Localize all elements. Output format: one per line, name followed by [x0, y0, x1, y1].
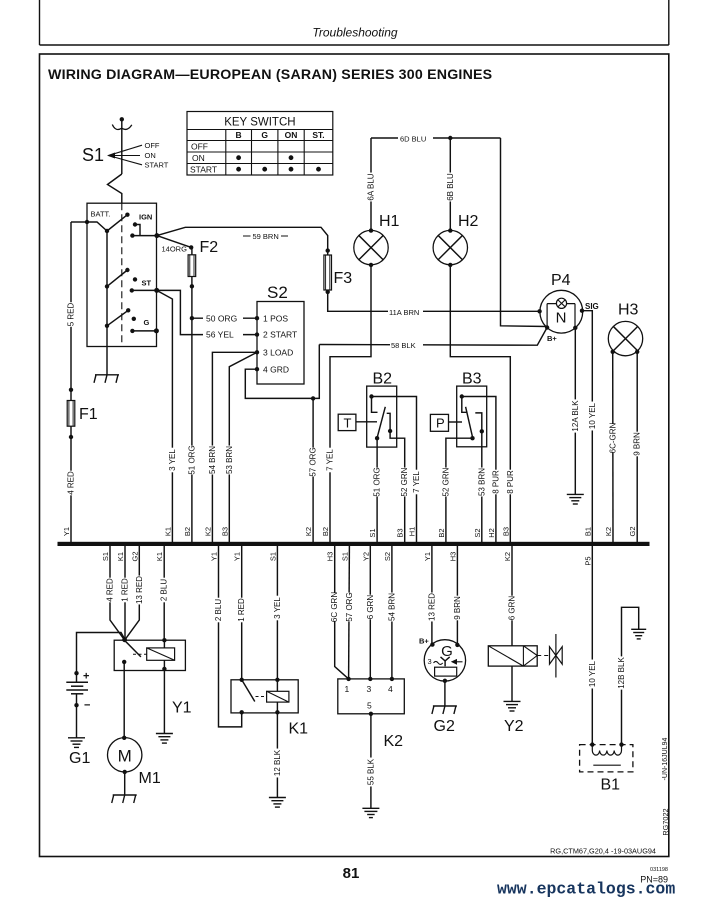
svg-text:1 RED: 1 RED: [237, 598, 246, 622]
svg-text:S1: S1: [101, 552, 110, 561]
wire 13 RED below bus: [125, 546, 139, 640]
svg-text:M: M: [118, 747, 132, 766]
contact arm G: [105, 324, 109, 328]
S2 pin 4 GRD: [255, 367, 259, 371]
svg-text:H3: H3: [448, 552, 457, 562]
svg-text:B+: B+: [547, 334, 557, 343]
svg-text:H3: H3: [618, 302, 639, 319]
svg-text:52 GRN: 52 GRN: [400, 467, 409, 496]
svg-text:ON: ON: [145, 151, 156, 160]
svg-text:53 BRN: 53 BRN: [477, 468, 486, 496]
svg-text:RG7022: RG7022: [661, 808, 670, 835]
svg-text:BATT.: BATT.: [91, 210, 111, 219]
P4 bottom terminal: [573, 326, 577, 330]
relay Y1 arm: [124, 640, 140, 657]
svg-text:11A BRN: 11A BRN: [389, 308, 419, 317]
svg-text:K1: K1: [163, 527, 172, 536]
svg-text:8 PUR: 8 PUR: [491, 470, 500, 494]
wire 7 YEL from B2: [372, 397, 417, 543]
svg-text:WIRING DIAGRAM—EUROPEAN (SARAN: WIRING DIAGRAM—EUROPEAN (SARAN) SERIES 3…: [48, 67, 492, 83]
wire 51 ORG from F2 to bus: [191, 286, 193, 542]
svg-text:54 BRN: 54 BRN: [387, 593, 396, 621]
G2 bottom terminal: [443, 679, 447, 683]
wire 50 ORG: [192, 317, 257, 319]
contact arm IGN: [105, 229, 109, 233]
svg-text:G2: G2: [434, 718, 455, 735]
S2 pin 3 LOAD: [255, 350, 259, 354]
wire 6B BLU: [449, 138, 451, 231]
svg-text:031198: 031198: [650, 867, 668, 873]
svg-text:2 BLU: 2 BLU: [214, 599, 223, 621]
svg-text:H2: H2: [487, 528, 496, 538]
sender B3 box: [457, 386, 487, 447]
wire 6 GRN to K2: [369, 546, 371, 679]
B2 top terminal: [369, 394, 373, 398]
svg-text:6 GRN: 6 GRN: [366, 595, 375, 620]
P4 B+ terminal: [545, 325, 549, 329]
svg-text:START: START: [145, 161, 169, 170]
wire 3 YEL to K1: [276, 546, 278, 680]
S1 case ground wire: [106, 347, 108, 375]
svg-text:5 RED: 5 RED: [67, 302, 76, 326]
svg-text:57 ORG: 57 ORG: [309, 447, 318, 476]
svg-text:ON: ON: [285, 130, 298, 140]
wire 11A BRN: [328, 292, 540, 311]
wire Y2 to valve: [537, 655, 549, 657]
wire relay to motor: [123, 671, 125, 738]
ground K1: [269, 797, 286, 799]
svg-text:N: N: [556, 310, 567, 327]
node F2 bottom: [190, 284, 194, 288]
wire relay to ground: [163, 671, 165, 734]
relay K1 box: [231, 680, 298, 713]
svg-text:13 RED: 13 RED: [135, 576, 144, 604]
S1 mechanical dashed link: [121, 203, 123, 346]
ground chassis G2: [433, 705, 457, 707]
wire 6 GRN to Y2: [511, 546, 513, 646]
wire 53 BRN from B3: [481, 431, 483, 542]
svg-text:Troubleshooting: Troubleshooting: [312, 26, 397, 40]
svg-text:B: B: [236, 130, 242, 140]
ST terminal: [133, 277, 137, 281]
valve symbol: [550, 647, 563, 664]
wire 56 YEL: [157, 290, 257, 334]
svg-text:81: 81: [343, 865, 360, 882]
svg-text:B2: B2: [183, 527, 192, 536]
motor M1: [108, 738, 142, 772]
wire Y2 to ground: [511, 666, 513, 701]
svg-text:12 BLK: 12 BLK: [273, 749, 282, 776]
wire 53 BRN: [229, 352, 257, 542]
solenoid Y2 box: [488, 646, 537, 666]
component B1 dashed box: [580, 745, 633, 772]
svg-text:S1: S1: [82, 145, 104, 165]
wire 8 PUR from B3: [462, 397, 496, 543]
S1 switch box: [87, 203, 157, 346]
svg-text:55 BLK: 55 BLK: [366, 758, 375, 785]
S2 pin 1 POS: [255, 316, 259, 320]
svg-text:K2: K2: [203, 527, 212, 536]
svg-text:7 YEL: 7 YEL: [412, 471, 421, 493]
svg-text:Y1: Y1: [423, 552, 432, 561]
key switch table: [187, 112, 333, 176]
wire 4 RED below bus: [110, 546, 124, 640]
wire 6C-GRN: [612, 352, 614, 542]
wire to P4 B+: [501, 138, 548, 327]
wire 13 RED to G2: [431, 546, 433, 645]
node F3 bottom: [326, 290, 330, 294]
svg-text:6B BLU: 6B BLU: [446, 173, 455, 201]
wire 6A BLU: [370, 138, 372, 231]
svg-text:ON: ON: [192, 153, 205, 163]
B3 top terminal: [460, 394, 464, 398]
node F1 bottom: [69, 435, 73, 439]
svg-text:ST: ST: [142, 279, 152, 288]
svg-text:K2: K2: [384, 733, 404, 750]
svg-text:52 GRN: 52 GRN: [441, 467, 450, 496]
wire 58 BLK: [319, 328, 547, 346]
svg-text:B3: B3: [501, 527, 510, 536]
key switch S1 stem: [120, 117, 124, 121]
wire 3 YEL: [157, 290, 173, 542]
ground K2: [362, 807, 379, 809]
wire GRD elbow from S2 pin 4: [245, 345, 319, 399]
alternator G2: [424, 640, 465, 681]
svg-text:4 RED: 4 RED: [67, 471, 76, 495]
svg-text:K2: K2: [503, 552, 512, 561]
wire 6C GRN to K2: [335, 546, 349, 679]
svg-text:KEY SWITCH: KEY SWITCH: [224, 117, 295, 129]
svg-text:1 RED: 1 RED: [121, 578, 130, 602]
wire 1 RED below bus: [124, 546, 126, 640]
svg-text:10 YEL: 10 YEL: [588, 660, 597, 687]
svg-text:B3: B3: [220, 527, 229, 536]
ground G1: [68, 737, 85, 739]
sender B2 box: [367, 386, 397, 447]
K2 pin 1: [346, 677, 350, 681]
svg-text:G2: G2: [130, 551, 139, 561]
wire 51 ORG from B2: [376, 438, 378, 542]
svg-text:56 YEL: 56 YEL: [206, 330, 234, 340]
B2 right terminal: [388, 429, 392, 433]
svg-text:K1: K1: [155, 552, 164, 561]
node F1 top: [69, 388, 73, 392]
svg-text:−: −: [84, 700, 90, 712]
wire 9 BRN: [636, 352, 638, 542]
svg-text:S1: S1: [340, 552, 349, 561]
svg-text:12B BLK: 12B BLK: [617, 657, 626, 689]
svg-text:53 BRN: 53 BRN: [225, 446, 234, 474]
svg-text:P: P: [436, 416, 445, 431]
wire 12 BLK: [276, 713, 278, 798]
wire 7 YEL from H1: [330, 265, 371, 542]
K2 pin 3: [368, 677, 372, 681]
svg-text:+: +: [83, 671, 89, 683]
svg-text:G: G: [144, 318, 150, 327]
svg-text:B2: B2: [373, 371, 393, 388]
fuse F3: [327, 251, 329, 292]
svg-text:M1: M1: [139, 770, 161, 787]
P4 left terminal: [537, 309, 541, 313]
header rule previous-section: [39, 0, 41, 45]
svg-text:K1: K1: [116, 552, 125, 561]
S2 pin 2 START: [255, 332, 259, 336]
contact arm ST: [105, 284, 109, 288]
svg-text:B2: B2: [321, 527, 330, 536]
lamp H3: [608, 321, 642, 355]
svg-text:4: 4: [388, 684, 393, 694]
svg-text:www.epcatalogs.com: www.epcatalogs.com: [497, 880, 675, 899]
svg-text:H3: H3: [326, 552, 335, 562]
relay Y1 box: [114, 640, 185, 670]
node st junction: [154, 288, 159, 293]
svg-text:F3: F3: [334, 270, 353, 287]
connector S2 box: [257, 302, 304, 385]
ground P4: [567, 493, 584, 495]
node funnel: [122, 637, 127, 642]
svg-text:2 BLU: 2 BLU: [160, 579, 169, 601]
svg-text:IGN: IGN: [139, 213, 152, 222]
svg-text:1: 1: [345, 684, 350, 694]
B3 right terminal: [480, 429, 484, 433]
relay Y1 coil terminals: [162, 638, 166, 642]
wire 5 RED: [70, 222, 72, 390]
K2 pin 5: [369, 712, 373, 716]
relay Y1 dashed link: [133, 653, 147, 655]
ground Y1: [156, 733, 173, 735]
wire 2 BLU to relay: [163, 546, 165, 640]
svg-text:G: G: [441, 643, 453, 660]
node F3 top: [326, 248, 330, 252]
fuse F2: [191, 247, 193, 286]
S1 common chain: [106, 231, 108, 347]
wire 14ORG: [157, 236, 191, 248]
svg-text:7 YEL: 7 YEL: [326, 449, 335, 471]
table dots ON row: [236, 155, 241, 160]
svg-text:S1: S1: [268, 552, 277, 561]
svg-text:S1: S1: [368, 528, 377, 537]
wire 52 GRN from B3: [446, 438, 473, 542]
wire 57 ORG: [312, 398, 314, 542]
svg-text:3: 3: [428, 657, 432, 666]
node 57 ORG junction: [311, 396, 315, 400]
svg-text:P5: P5: [583, 556, 592, 565]
S1 position fan: [109, 145, 143, 155]
svg-text:6C-GRN: 6C-GRN: [609, 422, 618, 453]
svg-text:1 POS: 1 POS: [263, 313, 288, 323]
node F2 top: [189, 245, 193, 249]
svg-text:Y1: Y1: [233, 552, 242, 561]
svg-text:T: T: [344, 416, 352, 431]
svg-text:51 ORG: 51 ORG: [373, 467, 382, 496]
wire 8 PUR from H2: [450, 265, 510, 542]
svg-text:3: 3: [367, 684, 372, 694]
svg-text:6 GRN: 6 GRN: [508, 596, 517, 621]
B2 bottom terminal: [375, 436, 379, 440]
table dots START row: [236, 167, 241, 172]
svg-text:RG,CTM67,G20,4 -19-03AUG94: RG,CTM67,G20,4 -19-03AUG94: [550, 847, 656, 856]
lamp H2: [433, 230, 467, 264]
svg-text:12A BLK: 12A BLK: [571, 400, 580, 432]
wire 59 BRN: [157, 227, 328, 250]
relay Y1 coil: [147, 648, 175, 660]
svg-text:6C GRN: 6C GRN: [330, 592, 339, 622]
wire 12A BLK: [574, 328, 576, 495]
svg-text:S2: S2: [383, 552, 392, 561]
switch T box: [338, 414, 356, 430]
K1 dashed link: [256, 696, 267, 698]
svg-text:5: 5: [367, 701, 372, 711]
wire 12B BLK: [622, 607, 639, 744]
svg-text:K2: K2: [604, 527, 613, 536]
S1 zigzag link: [108, 174, 122, 203]
ground chassis under S1: [95, 374, 119, 376]
svg-text:S2: S2: [267, 283, 288, 302]
svg-text:START: START: [190, 165, 217, 175]
wire 57 ORG to K2: [348, 546, 351, 679]
svg-text:B3: B3: [462, 371, 482, 388]
svg-text:P4: P4: [551, 272, 571, 289]
diagram border frame: [40, 54, 669, 857]
K1 bottom terminals: [240, 710, 244, 714]
svg-text:B3: B3: [396, 528, 405, 537]
ground chassis M1: [113, 794, 137, 796]
svg-text:F2: F2: [200, 239, 219, 256]
svg-text:51 ORG: 51 ORG: [187, 445, 196, 474]
wire 55 BLK: [370, 714, 372, 809]
svg-text:Y1: Y1: [62, 527, 71, 536]
svg-text:13 RED: 13 RED: [427, 593, 436, 621]
svg-text:S2: S2: [473, 528, 482, 537]
wire 4 RED to bus: [70, 437, 72, 542]
svg-text:H1: H1: [379, 213, 400, 230]
svg-text:9 BRN: 9 BRN: [633, 432, 642, 456]
svg-text:57 ORG: 57 ORG: [345, 592, 354, 621]
wire 54 BRN: [212, 352, 257, 542]
svg-text:H2: H2: [458, 213, 479, 230]
svg-text:OFF: OFF: [191, 142, 208, 152]
B3 bottom terminal: [470, 436, 474, 440]
svg-text:3 LOAD: 3 LOAD: [263, 347, 293, 357]
G terminal: [132, 317, 136, 321]
svg-text:10 YEL: 10 YEL: [588, 402, 597, 429]
IGN terminal: [133, 222, 137, 226]
wire 52 GRN from B2: [390, 431, 405, 542]
svg-text:Y1: Y1: [210, 552, 219, 561]
svg-text:58 BLK: 58 BLK: [391, 341, 416, 350]
svg-text:B1: B1: [583, 527, 592, 536]
svg-text:G2: G2: [628, 526, 637, 536]
K1 arm: [242, 680, 255, 702]
svg-text:F1: F1: [79, 406, 98, 423]
switch P box: [430, 414, 448, 431]
svg-text:SIG: SIG: [585, 302, 599, 311]
svg-text:OFF: OFF: [145, 141, 160, 150]
K2 pin 4: [390, 677, 394, 681]
svg-text:B1: B1: [601, 777, 621, 794]
svg-text:H1: H1: [408, 527, 417, 537]
B1 coil: [591, 745, 593, 751]
K1 coil: [267, 691, 289, 702]
svg-text:54 BRN: 54 BRN: [208, 446, 217, 474]
svg-text:ST.: ST.: [312, 130, 324, 140]
P4 SIG terminal: [580, 309, 584, 313]
svg-text:3 YEL: 3 YEL: [273, 597, 282, 619]
wire 9 BRN to G2: [456, 546, 458, 645]
svg-text:B2: B2: [437, 528, 446, 537]
svg-text:B+: B+: [419, 637, 429, 646]
svg-text:Y2: Y2: [504, 718, 524, 735]
svg-text:-UN-16JUL94: -UN-16JUL94: [662, 737, 669, 780]
B2 arm: [377, 407, 385, 438]
connector K2 box: [338, 679, 405, 714]
main bus wire: [58, 542, 650, 546]
wire battery positive feed: [77, 633, 125, 674]
node 50 ORG junction: [190, 316, 194, 320]
svg-text:6D BLU: 6D BLU: [400, 134, 426, 143]
node 6D BLU junction: [448, 136, 452, 140]
svg-text:2 START: 2 START: [263, 330, 297, 340]
svg-text:9 BRN: 9 BRN: [453, 596, 462, 620]
svg-text:G: G: [261, 130, 268, 140]
svg-text:6A BLU: 6A BLU: [367, 173, 376, 200]
svg-text:59 BRN: 59 BRN: [253, 232, 279, 241]
relay Y1 contact: [122, 660, 126, 664]
node ign junction: [154, 233, 159, 238]
svg-text:8 PUR: 8 PUR: [506, 470, 515, 494]
svg-text:3 YEL: 3 YEL: [168, 449, 177, 471]
svg-text:Y1: Y1: [172, 700, 192, 717]
svg-text:G1: G1: [69, 750, 90, 767]
wire 10 YEL to B1: [591, 546, 593, 745]
battery G1: [74, 671, 78, 675]
B3 arm: [466, 407, 473, 437]
svg-text:14ORG: 14ORG: [162, 245, 188, 254]
svg-text:4 RED: 4 RED: [106, 578, 115, 602]
gauge P4: [540, 290, 583, 333]
ground Y2: [504, 700, 521, 702]
wire 6D BLU: [371, 137, 501, 139]
svg-text:50 ORG: 50 ORG: [206, 313, 237, 323]
wire 10 YEL from SIG: [582, 311, 592, 542]
K1 terminals top: [240, 678, 244, 682]
BATT terminal wire: [85, 220, 89, 224]
svg-text:Y2: Y2: [361, 552, 370, 561]
wire 2 BLU elbow to K1: [219, 546, 242, 727]
lamp H1: [354, 230, 388, 264]
svg-text:K1: K1: [289, 721, 309, 738]
wire 54 BRN to K2: [391, 546, 393, 679]
ground 12B BLK: [631, 628, 646, 630]
svg-text:4 GRD: 4 GRD: [263, 364, 289, 374]
fuse F1: [70, 390, 72, 437]
svg-text:K2: K2: [304, 527, 313, 536]
wire 1 RED to K1: [241, 546, 243, 680]
